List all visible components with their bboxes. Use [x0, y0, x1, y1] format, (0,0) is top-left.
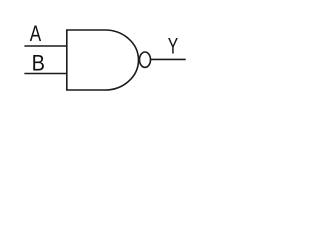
- wire A input: [24, 45, 67, 47]
- svg-text:Y: Y: [168, 34, 179, 59]
- wire B input: [24, 73, 67, 75]
- NAND gate U1 inversion bubble: [140, 52, 151, 67]
- NAND gate U1 body: [67, 30, 139, 90]
- svg-text:B: B: [32, 50, 45, 75]
- svg-text:A: A: [30, 21, 42, 46]
- wire Y output: [151, 58, 186, 60]
